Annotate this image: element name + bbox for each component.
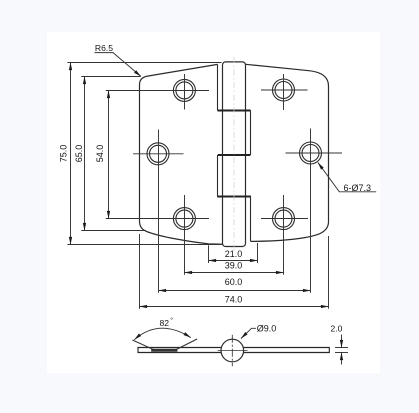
- dim 21.0 extension right: [257, 243, 259, 263]
- right curl seam upper: [250, 111, 252, 156]
- barrel knuckle column: [223, 62, 246, 247]
- svg-text:21.0: 21.0: [225, 249, 243, 259]
- svg-text:R6.5: R6.5: [95, 43, 113, 53]
- dim 60.0 extension right: [310, 129, 312, 293]
- label R6.5 leader: [95, 53, 141, 77]
- dim 2.0 line lower: [341, 353, 343, 365]
- dim 54.0 extension top: [106, 90, 209, 92]
- hole middle-right: [286, 142, 343, 164]
- right leaf outline: [246, 64, 329, 241]
- dim 54.0 line: [108, 91, 110, 219]
- dim 39.0 extension left: [184, 195, 186, 275]
- label 6-D7.3 leader: [318, 163, 376, 192]
- dim 65.0 line: [84, 77, 86, 231]
- hole middle-left: [133, 143, 184, 165]
- dim 60.0 extension left: [158, 130, 160, 293]
- svg-text:74.0: 74.0: [225, 295, 243, 305]
- dim 65.0 extension bottom: [81, 230, 146, 232]
- knuckle division 3: [217, 196, 251, 198]
- barrel circle vertical centerline: [231, 335, 233, 367]
- dim 75.0 extension top: [67, 62, 221, 64]
- barrel circle horizontal centerline: [218, 350, 248, 352]
- angle 82 right leg: [176, 339, 197, 350]
- dim 21.0 extension left: [208, 245, 210, 263]
- svg-text:Ø9.0: Ø9.0: [257, 323, 277, 333]
- angle 82 left leg: [132, 340, 153, 350]
- dim 60.0 line: [159, 290, 311, 292]
- svg-text:60.0: 60.0: [225, 277, 243, 287]
- dim 65.0 extension top: [81, 76, 140, 78]
- left leaf outline: [140, 64, 223, 244]
- leaf bar right segment: [243, 348, 329, 353]
- dim 75.0 line: [70, 63, 72, 245]
- hole top-left: [173, 74, 195, 110]
- hole top-right: [261, 74, 308, 110]
- countersunk hole section band: [151, 349, 177, 352]
- dim 54.0 extension bottom: [106, 218, 209, 220]
- svg-text:75.0: 75.0: [58, 145, 68, 163]
- pin centerline: [233, 57, 235, 252]
- dim 74.0 extension left: [139, 234, 141, 309]
- label D9.0 leader: [241, 328, 256, 338]
- svg-text:65.0: 65.0: [74, 145, 84, 163]
- hole bottom-left: [173, 208, 195, 230]
- barrel circle: [221, 339, 244, 362]
- svg-text:6-Ø7.3: 6-Ø7.3: [344, 183, 372, 193]
- svg-text:54.0: 54.0: [95, 145, 105, 163]
- dim 74.0 extension right: [328, 236, 330, 309]
- dim 2.0 extension tick top: [335, 347, 348, 349]
- hole bottom-right: [261, 208, 308, 230]
- dim 39.0 extension right: [283, 195, 285, 275]
- right curl seam lower: [250, 197, 252, 242]
- left curl seam upper: [217, 64, 219, 110]
- angle 82 arc: [134, 328, 191, 340]
- knuckle division 2: [218, 154, 251, 156]
- knuckle division 1: [218, 110, 251, 112]
- dim 39.0 line: [185, 272, 284, 274]
- dim 74.0 line: [140, 306, 329, 308]
- left curl seam lower: [217, 155, 219, 197]
- svg-text:82: 82: [160, 318, 170, 328]
- svg-text:39.0: 39.0: [225, 261, 243, 271]
- dim 2.0 line upper: [341, 335, 343, 348]
- white drawing area: [47, 32, 380, 373]
- leaf bar left segment: [138, 348, 222, 353]
- dim 21.0 line: [209, 260, 258, 262]
- dim 75.0 extension bottom: [67, 244, 221, 246]
- dim 2.0 extension tick bottom: [335, 352, 348, 354]
- svg-text:°: °: [170, 317, 173, 325]
- svg-text:2.0: 2.0: [330, 324, 342, 334]
